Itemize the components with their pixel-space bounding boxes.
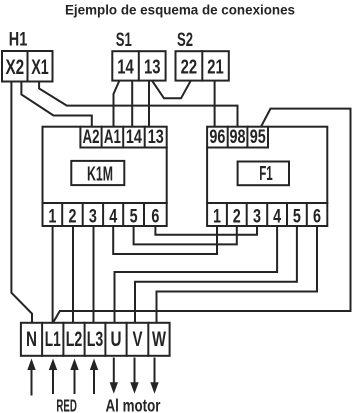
contactor K1M coil/aux terminals A2 A1 14 13	[80, 127, 166, 148]
svg-text:6: 6	[151, 205, 159, 227]
svg-text:3: 3	[253, 205, 261, 227]
svg-text:A1: A1	[104, 127, 121, 148]
svg-text:U: U	[111, 328, 122, 351]
svg-text:14: 14	[126, 127, 142, 148]
wire S1.13 to K1M.13	[148, 81, 150, 127]
wire S1.14 to A1	[114, 81, 120, 127]
wire S1.13 to S2.22	[152, 81, 191, 99]
svg-text:2: 2	[69, 205, 77, 227]
wire K1M.6 to F1.3	[155, 226, 257, 235]
wire S1.14 to K1M.14	[131, 81, 133, 127]
contactor K1M main terminals 1-6	[43, 203, 167, 226]
arrow into N	[31, 368, 33, 395]
svg-text:N: N	[26, 328, 37, 351]
svg-text:22: 22	[181, 57, 198, 79]
pushbutton S1 terminal box	[112, 51, 165, 80]
arrow into L2	[74, 368, 76, 393]
svg-text:4: 4	[273, 205, 281, 227]
svg-text:5: 5	[130, 205, 138, 227]
arrow out of W	[154, 359, 156, 385]
svg-text:13: 13	[144, 57, 161, 79]
wire K1M.2 to L2	[72, 226, 74, 324]
svg-text:RED: RED	[56, 396, 77, 413]
contactor K1M body	[43, 127, 167, 203]
svg-text:X2: X2	[5, 56, 24, 79]
svg-text:L3: L3	[87, 328, 104, 351]
svg-text:1: 1	[48, 205, 56, 227]
wire K1M.3 to L3	[93, 226, 95, 324]
wire S2.21 to F1.96	[214, 81, 216, 127]
svg-text:W: W	[152, 328, 166, 351]
wire K1M.4 to F1.1	[113, 226, 217, 254]
wire F1.95 to L1	[53, 109, 351, 323]
svg-text:S2: S2	[177, 29, 193, 51]
wire K1M.1 to L1	[52, 226, 54, 324]
svg-text:6: 6	[313, 205, 321, 227]
arrow out of V	[134, 359, 136, 385]
svg-text:X1: X1	[31, 56, 49, 79]
svg-text:K1M: K1M	[87, 162, 113, 185]
svg-text:5: 5	[293, 205, 301, 227]
svg-text:Ejemplo de esquema de conexion: Ejemplo de esquema de conexiones	[65, 1, 295, 17]
overload relay F1 body	[207, 127, 327, 203]
supply/motor terminal strip N L1 L2 L3 U V W	[21, 323, 170, 356]
svg-text:4: 4	[109, 205, 117, 227]
overload relay F1 contact terminals 96 98 95	[207, 127, 268, 148]
contactor K1M label box	[71, 161, 124, 185]
svg-text:21: 21	[207, 57, 224, 79]
overload relay F1 main terminals 1-6	[207, 203, 327, 226]
svg-text:V: V	[133, 328, 143, 351]
wire K1M.5 to F1.2	[134, 226, 237, 244]
arrow into L3	[93, 368, 95, 393]
svg-text:3: 3	[89, 205, 97, 227]
svg-text:S1: S1	[116, 29, 132, 51]
svg-text:L1: L1	[45, 328, 61, 351]
wire F1.5 to V	[135, 226, 297, 324]
svg-text:L2: L2	[66, 328, 83, 351]
arrowhead N	[27, 359, 35, 371]
svg-text:98: 98	[230, 127, 246, 148]
arrowhead V	[130, 382, 138, 394]
wire F1.6 to W	[157, 226, 318, 324]
arrow into L1	[52, 368, 54, 393]
wire X2 to N	[11, 81, 32, 324]
svg-text:95: 95	[250, 127, 266, 148]
arrowhead L2	[70, 359, 78, 371]
svg-text:13: 13	[148, 127, 164, 148]
svg-text:14: 14	[117, 57, 134, 79]
wire X1 to 98	[39, 81, 237, 127]
wire X2 to A2	[21, 81, 91, 127]
arrow out of U	[113, 359, 115, 385]
svg-text:2: 2	[233, 205, 241, 227]
wire F1.4 to U	[115, 226, 278, 324]
svg-text:H1: H1	[9, 29, 28, 51]
svg-text:F1: F1	[259, 162, 273, 185]
arrowhead L1	[49, 359, 57, 371]
lamp H1 terminal box	[2, 51, 53, 82]
overload relay F1 label box	[238, 162, 289, 186]
arrowhead L3	[90, 359, 98, 371]
svg-text:96: 96	[209, 127, 225, 148]
svg-text:A2: A2	[83, 127, 100, 148]
pushbutton S2 terminal box	[176, 51, 229, 80]
svg-text:Al motor: Al motor	[106, 396, 161, 413]
svg-text:1: 1	[213, 205, 221, 227]
arrowhead U	[110, 382, 118, 394]
arrowhead W	[150, 382, 158, 394]
